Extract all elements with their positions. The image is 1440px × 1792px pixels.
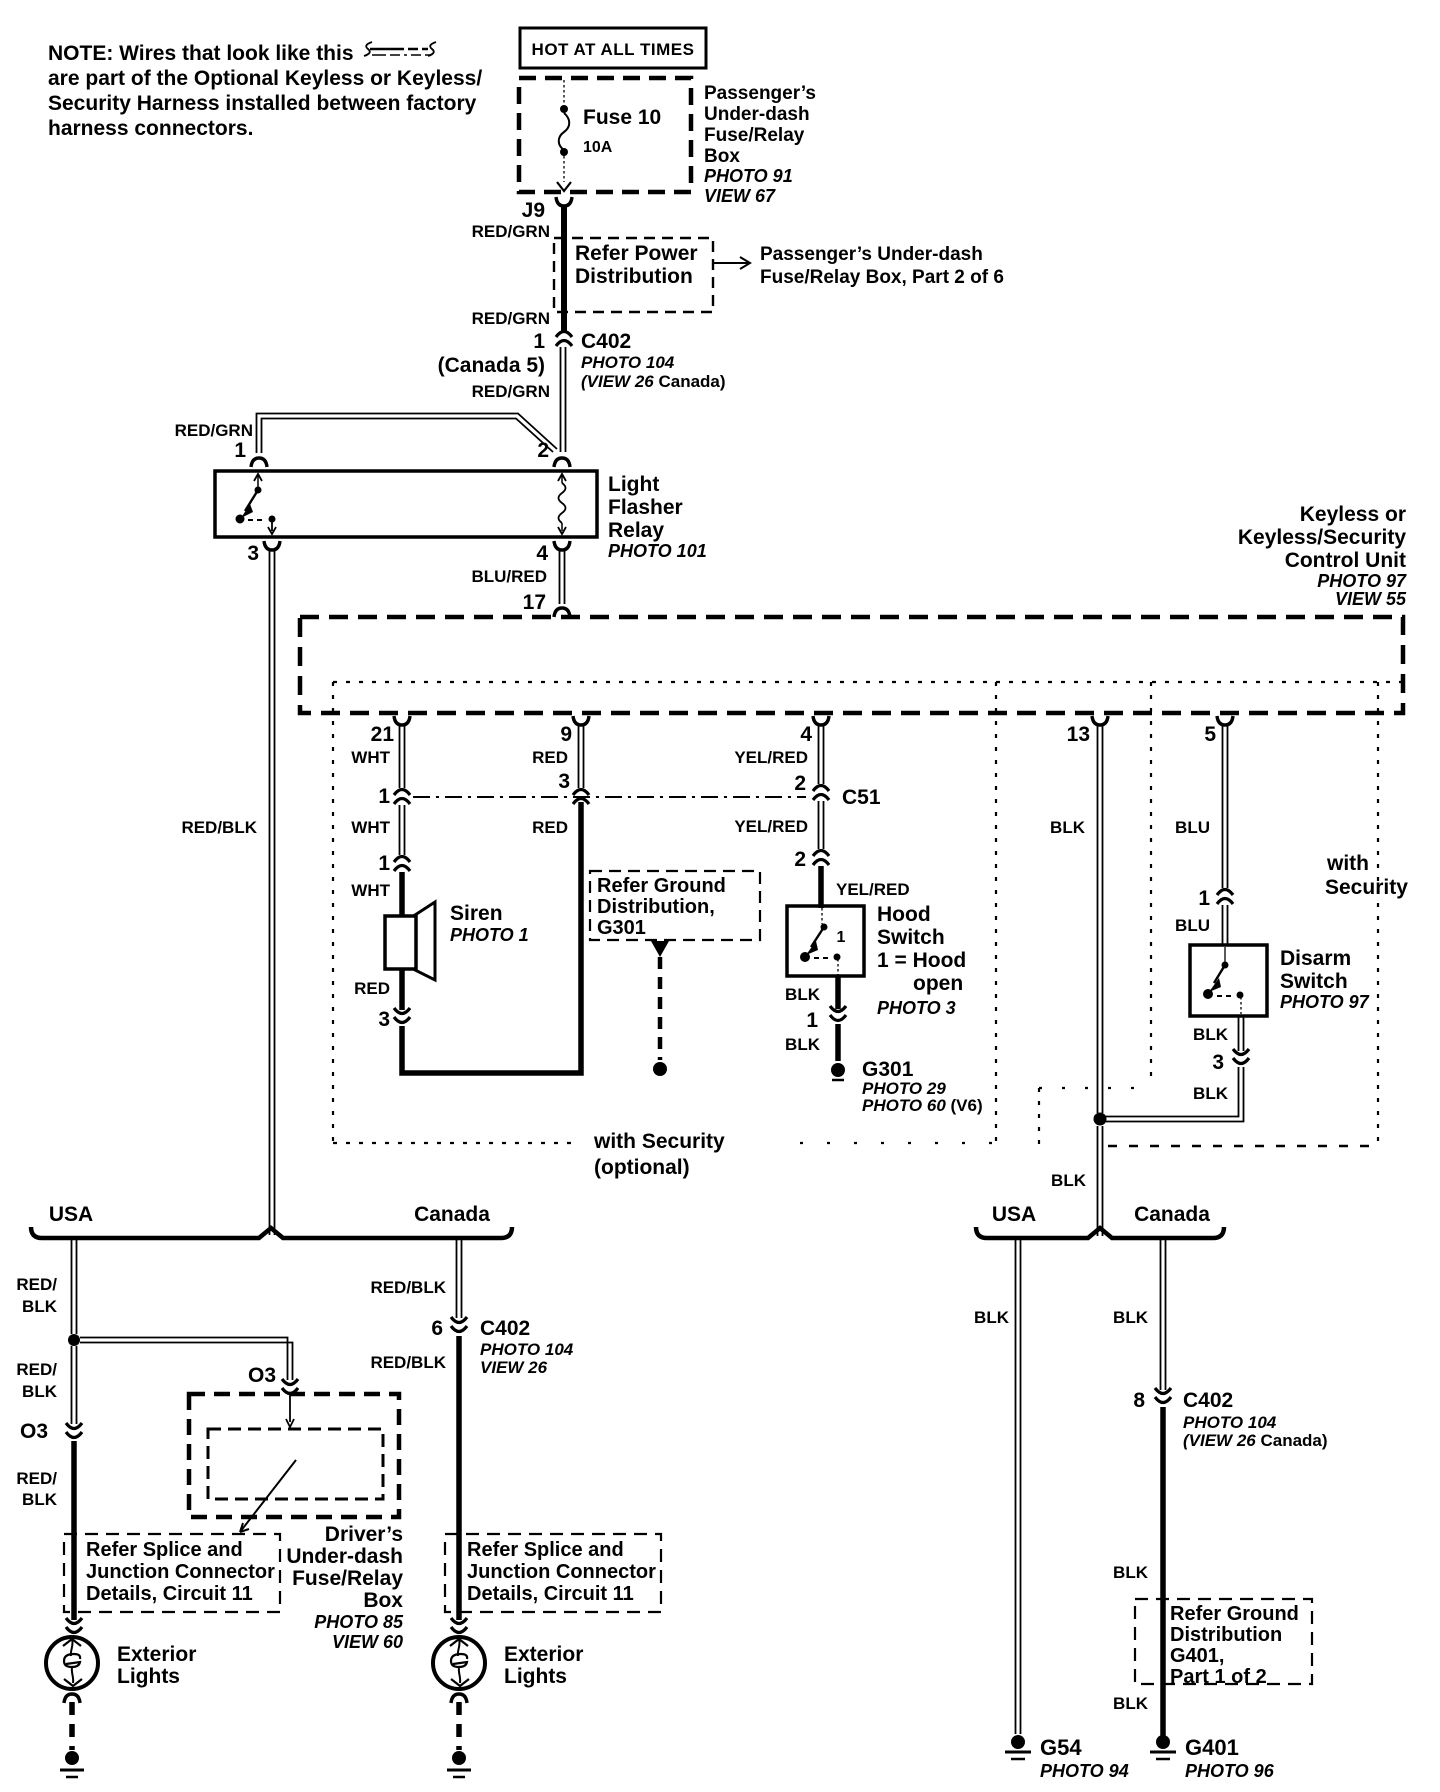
svg-text:WHT: WHT bbox=[351, 818, 390, 837]
svg-text:Junction Connector: Junction Connector bbox=[86, 1561, 275, 1583]
svg-text:Refer Splice and: Refer Splice and bbox=[86, 1539, 243, 1561]
svg-text:4: 4 bbox=[536, 542, 548, 565]
hood switch name label bbox=[877, 903, 966, 995]
svg-text:C402: C402 bbox=[1183, 1389, 1233, 1412]
svg-text:(optional): (optional) bbox=[594, 1156, 690, 1179]
connector C402 pin 1 (Canada 5) bbox=[556, 332, 572, 347]
svg-text:Box: Box bbox=[363, 1589, 403, 1612]
wire RED/GRN relay pin 1 branch (double line) bbox=[257, 414, 558, 454]
svg-text:with: with bbox=[1326, 852, 1369, 875]
svg-text:Junction Connector: Junction Connector bbox=[467, 1561, 656, 1583]
svg-text:Box: Box bbox=[704, 146, 740, 167]
svg-text:RED/GRN: RED/GRN bbox=[175, 421, 253, 440]
svg-text:G401,: G401, bbox=[1170, 1645, 1224, 1667]
svg-text:2: 2 bbox=[794, 772, 806, 795]
svg-text:RED: RED bbox=[532, 748, 568, 767]
wire BLK Canada branch (double line) bbox=[1161, 1240, 1166, 1390]
svg-text:Keyless/Security: Keyless/Security bbox=[1238, 526, 1406, 549]
svg-text:Security Harness installed bet: Security Harness installed between facto… bbox=[48, 92, 477, 115]
svg-text:(VIEW 26 Canada): (VIEW 26 Canada) bbox=[1183, 1431, 1328, 1450]
wire YEL/RED pin4 to C51 (double line) bbox=[819, 726, 824, 784]
svg-text:5: 5 bbox=[1204, 723, 1216, 746]
driver's under-dash fuse/relay box (dashed) bbox=[189, 1394, 399, 1517]
svg-text:Hood: Hood bbox=[877, 903, 931, 926]
svg-text:BLK: BLK bbox=[22, 1490, 58, 1509]
svg-text:21: 21 bbox=[371, 723, 395, 746]
wire splice to O3 driver's box (double L) bbox=[80, 1338, 293, 1381]
svg-text:4: 4 bbox=[800, 723, 812, 746]
svg-text:6: 6 bbox=[431, 1317, 443, 1340]
svg-text:BLU/RED: BLU/RED bbox=[471, 567, 547, 586]
svg-text:BLU: BLU bbox=[1175, 916, 1210, 935]
svg-text:YEL/RED: YEL/RED bbox=[734, 748, 808, 767]
svg-text:BLK: BLK bbox=[785, 1035, 821, 1054]
svg-text:1: 1 bbox=[837, 929, 846, 946]
svg-text:Refer Ground: Refer Ground bbox=[597, 875, 726, 897]
wire RED/GRN J9 to C402 (thick) bbox=[561, 206, 567, 331]
USA/Canada split bracket (left) bbox=[31, 1227, 512, 1238]
svg-text:PHOTO 104: PHOTO 104 bbox=[581, 353, 675, 372]
svg-text:C402: C402 bbox=[480, 1317, 530, 1340]
svg-text:RED/BLK: RED/BLK bbox=[370, 1353, 446, 1372]
svg-text:Distribution: Distribution bbox=[575, 265, 693, 288]
exterior lights USA (lamp) bbox=[46, 1637, 98, 1689]
wire RED siren return (thick U shape) bbox=[402, 802, 581, 1073]
wire WHT to siren (thick) bbox=[399, 872, 405, 918]
hood switch contacts bbox=[801, 908, 841, 975]
wire YEL/RED (double line) bbox=[819, 801, 824, 849]
wire RED/BLK relay pin3 down to USA/Canada bracket (double line) bbox=[270, 551, 275, 1235]
light flasher relay box bbox=[215, 471, 597, 537]
svg-text:Switch: Switch bbox=[877, 926, 945, 949]
svg-text:1: 1 bbox=[1198, 887, 1210, 910]
svg-text:WHT: WHT bbox=[351, 881, 390, 900]
svg-text:2: 2 bbox=[537, 439, 549, 462]
svg-text:Passenger’s Under-dash: Passenger’s Under-dash bbox=[760, 244, 983, 265]
ground G401 bbox=[1156, 1735, 1170, 1749]
ground (Canada lights) bbox=[452, 1751, 466, 1765]
svg-text:RED/GRN: RED/GRN bbox=[472, 382, 550, 401]
svg-text:are part of the Optional Keyle: are part of the Optional Keyless or Keyl… bbox=[48, 67, 482, 90]
svg-text:G301: G301 bbox=[597, 917, 646, 939]
svg-text:BLK: BLK bbox=[1113, 1308, 1149, 1327]
junction node (USA splice) bbox=[68, 1334, 80, 1346]
svg-text:YEL/RED: YEL/RED bbox=[734, 817, 808, 836]
wire BLK disarm to junction (double L) bbox=[1105, 1067, 1244, 1122]
svg-text:Canada: Canada bbox=[1134, 1203, 1210, 1226]
wire BLK hood switch to G301 (thick) bbox=[835, 976, 841, 1009]
wire WHT (double line) bbox=[400, 805, 405, 855]
svg-text:BLK: BLK bbox=[974, 1308, 1010, 1327]
svg-text:USA: USA bbox=[49, 1203, 93, 1226]
svg-text:13: 13 bbox=[1067, 723, 1090, 746]
svg-text:RED: RED bbox=[354, 979, 390, 998]
svg-text:C402: C402 bbox=[581, 330, 631, 353]
svg-text:PHOTO 104: PHOTO 104 bbox=[1183, 1413, 1277, 1432]
svg-text:Under-dash: Under-dash bbox=[704, 104, 810, 125]
connector J9 bbox=[556, 197, 572, 206]
wire RED siren to connector 3 (thick) bbox=[399, 969, 405, 1010]
svg-text:Driver’s: Driver’s bbox=[325, 1523, 403, 1546]
svg-text:BLK: BLK bbox=[1051, 1171, 1087, 1190]
svg-text:harness connectors.: harness connectors. bbox=[48, 117, 253, 140]
svg-text:Keyless or: Keyless or bbox=[1300, 503, 1406, 526]
svg-text:Distribution,: Distribution, bbox=[597, 896, 715, 918]
svg-text:1: 1 bbox=[533, 330, 545, 353]
svg-text:1: 1 bbox=[378, 785, 390, 808]
dashed wire to ground (USA lights) bbox=[69, 1702, 75, 1750]
ground (USA lights) bbox=[65, 1751, 79, 1765]
relay switch contacts bbox=[236, 474, 276, 534]
ground node G301 (distribution) bbox=[653, 1062, 667, 1076]
exterior lights Canada (lamp) bbox=[433, 1637, 485, 1689]
connector C51 boundary line bbox=[413, 796, 806, 798]
svg-text:3: 3 bbox=[1212, 1051, 1224, 1074]
keyless control unit name label bbox=[1238, 503, 1406, 572]
wire WHT pin21 to siren (double line) bbox=[400, 726, 405, 788]
svg-text:10A: 10A bbox=[583, 139, 613, 156]
svg-text:C51: C51 bbox=[842, 786, 881, 809]
svg-text:Control Unit: Control Unit bbox=[1285, 549, 1406, 572]
svg-text:HOT AT ALL TIMES: HOT AT ALL TIMES bbox=[532, 40, 695, 59]
svg-text:(VIEW 26 Canada): (VIEW 26 Canada) bbox=[581, 372, 726, 391]
svg-text:BLK: BLK bbox=[1113, 1563, 1149, 1582]
wire BLK disarm switch (double line) bbox=[1239, 1016, 1244, 1051]
svg-text:Canada: Canada bbox=[414, 1203, 490, 1226]
svg-text:PHOTO 104: PHOTO 104 bbox=[480, 1340, 574, 1359]
svg-text:3: 3 bbox=[558, 770, 570, 793]
svg-text:G401: G401 bbox=[1185, 1735, 1239, 1760]
svg-text:G54: G54 bbox=[1040, 1735, 1082, 1760]
wire RED/BLK USA branch (double line) bbox=[72, 1240, 77, 1334]
svg-text:Lights: Lights bbox=[117, 1665, 180, 1688]
svg-text:Switch: Switch bbox=[1280, 970, 1348, 993]
svg-text:Under-dash: Under-dash bbox=[286, 1545, 403, 1568]
svg-text:PHOTO 97: PHOTO 97 bbox=[1317, 571, 1407, 591]
svg-text:9: 9 bbox=[560, 723, 572, 746]
optional security harness dotted boundary (horizontal inside control unit) bbox=[333, 681, 1401, 683]
svg-text:1: 1 bbox=[806, 1009, 818, 1032]
wire BLK pin13 down to junction (double line) bbox=[1098, 726, 1103, 1113]
with security dotted box (right) bbox=[1150, 682, 1152, 1084]
HOT AT ALL TIMES label box bbox=[520, 28, 706, 68]
light flasher relay name label bbox=[608, 473, 683, 542]
svg-text:Siren: Siren bbox=[450, 902, 503, 925]
svg-text:VIEW 26: VIEW 26 bbox=[480, 1358, 548, 1377]
svg-text:PHOTO 94: PHOTO 94 bbox=[1040, 1761, 1129, 1781]
svg-text:RED/GRN: RED/GRN bbox=[472, 309, 550, 328]
arrow inside driver's box bbox=[240, 1460, 296, 1532]
svg-text:PHOTO 101: PHOTO 101 bbox=[608, 541, 707, 561]
connector above Canada exterior lights bbox=[451, 1618, 467, 1633]
svg-text:Refer Splice and: Refer Splice and bbox=[467, 1539, 624, 1561]
wire BLK USA to G54 (double line) bbox=[1016, 1240, 1021, 1734]
refer splice box (Canada) bbox=[445, 1534, 661, 1612]
arrow to passenger's fuse/relay box part 2 of 6 bbox=[713, 257, 750, 269]
refer ground distribution G401 box bbox=[1135, 1599, 1312, 1684]
svg-text:Fuse/Relay: Fuse/Relay bbox=[292, 1567, 403, 1590]
svg-text:NOTE: Wires that look like thi: NOTE: Wires that look like this bbox=[48, 42, 354, 65]
dashed wire to ground (Canada lights) bbox=[456, 1702, 462, 1750]
svg-text:J9: J9 bbox=[522, 199, 545, 222]
svg-text:VIEW 67: VIEW 67 bbox=[704, 186, 776, 206]
svg-text:Lights: Lights bbox=[504, 1665, 567, 1688]
disarm switch box bbox=[1190, 945, 1267, 1016]
USA/Canada split bracket (right) bbox=[976, 1227, 1224, 1238]
wire BLK junction to bracket (double line) bbox=[1098, 1126, 1103, 1236]
svg-text:Disarm: Disarm bbox=[1280, 947, 1351, 970]
connector below lamp USA bbox=[64, 1694, 80, 1703]
svg-text:PHOTO 85: PHOTO 85 bbox=[314, 1612, 404, 1632]
svg-text:G301: G301 bbox=[862, 1058, 914, 1081]
svg-text:open: open bbox=[913, 972, 963, 995]
svg-text:3: 3 bbox=[247, 542, 259, 565]
svg-text:USA: USA bbox=[992, 1203, 1036, 1226]
svg-text:BLK: BLK bbox=[1193, 1084, 1229, 1103]
svg-text:RED/: RED/ bbox=[16, 1275, 57, 1294]
svg-text:BLK: BLK bbox=[785, 985, 821, 1004]
junction node BLK bbox=[1094, 1113, 1107, 1126]
svg-text:Passenger’s: Passenger’s bbox=[704, 83, 816, 104]
svg-text:1: 1 bbox=[234, 439, 246, 462]
svg-text:Fuse 10: Fuse 10 bbox=[583, 106, 661, 129]
svg-text:1: 1 bbox=[378, 852, 390, 875]
refer splice box (USA) bbox=[64, 1534, 280, 1612]
svg-text:8: 8 bbox=[1133, 1389, 1145, 1412]
connector below lamp Canada bbox=[451, 1694, 467, 1703]
svg-text:Security: Security bbox=[1325, 876, 1408, 899]
svg-text:3: 3 bbox=[378, 1008, 390, 1031]
svg-text:Refer Ground: Refer Ground bbox=[1170, 1603, 1299, 1625]
svg-text:RED/: RED/ bbox=[16, 1469, 57, 1488]
svg-text:Light: Light bbox=[608, 473, 659, 496]
wire RED pin9 (double line) bbox=[579, 726, 584, 788]
svg-text:PHOTO 1: PHOTO 1 bbox=[450, 925, 529, 945]
svg-text:RED/BLK: RED/BLK bbox=[370, 1278, 446, 1297]
svg-text:WHT: WHT bbox=[351, 748, 390, 767]
svg-text:Part 1 of 2: Part 1 of 2 bbox=[1170, 1666, 1267, 1688]
connector O3 (driver's box) bbox=[282, 1379, 298, 1394]
wire RED/BLK to exterior lights USA (thick) bbox=[71, 1441, 77, 1620]
svg-text:VIEW 55: VIEW 55 bbox=[1335, 589, 1407, 609]
svg-text:Exterior: Exterior bbox=[117, 1643, 196, 1666]
svg-text:BLK: BLK bbox=[1193, 1025, 1229, 1044]
svg-text:RED: RED bbox=[532, 818, 568, 837]
svg-text:BLK: BLK bbox=[22, 1297, 58, 1316]
wire RED/BLK below splice (double line) bbox=[72, 1346, 77, 1424]
passenger's under-dash fuse/relay box (dashed) bbox=[519, 78, 691, 192]
svg-text:Relay: Relay bbox=[608, 519, 664, 542]
svg-text:2: 2 bbox=[794, 848, 806, 871]
svg-text:VIEW 60: VIEW 60 bbox=[332, 1632, 403, 1652]
svg-text:YEL/RED: YEL/RED bbox=[836, 880, 910, 899]
svg-text:PHOTO 91: PHOTO 91 bbox=[704, 166, 793, 186]
svg-text:PHOTO 97: PHOTO 97 bbox=[1280, 992, 1370, 1012]
svg-text:Details, Circuit 11: Details, Circuit 11 bbox=[86, 1583, 253, 1605]
svg-text:1 = Hood: 1 = Hood bbox=[877, 949, 966, 972]
relay coil bbox=[558, 474, 566, 534]
ground G54 bbox=[1011, 1735, 1025, 1749]
driver's box name label bbox=[286, 1523, 403, 1612]
svg-text:BLK: BLK bbox=[1050, 818, 1086, 837]
svg-text:PHOTO 60 (V6): PHOTO 60 (V6) bbox=[862, 1096, 983, 1115]
wire BLK to G401 (thick) bbox=[1160, 1407, 1166, 1736]
svg-text:RED/: RED/ bbox=[16, 1360, 57, 1379]
ground node G301 bbox=[831, 1063, 845, 1077]
optional harness squiggle sample symbol bbox=[364, 42, 436, 56]
refer power distribution box bbox=[554, 238, 713, 312]
svg-text:O3: O3 bbox=[248, 1364, 276, 1387]
svg-text:Fuse/Relay: Fuse/Relay bbox=[704, 125, 805, 146]
keyless/security control unit box (dashed) bbox=[300, 617, 1403, 713]
svg-text:Refer Power: Refer Power bbox=[575, 242, 698, 265]
hood switch box bbox=[787, 906, 864, 976]
svg-text:Flasher: Flasher bbox=[608, 496, 683, 519]
svg-text:PHOTO 3: PHOTO 3 bbox=[877, 998, 956, 1018]
svg-text:RED/BLK: RED/BLK bbox=[181, 818, 257, 837]
ground distribution dashed drop wire bbox=[651, 941, 669, 957]
svg-text:RED/GRN: RED/GRN bbox=[472, 222, 550, 241]
svg-text:Exterior: Exterior bbox=[504, 1643, 583, 1666]
svg-text:17: 17 bbox=[523, 591, 546, 614]
wire YEL/RED to hood switch (thick) bbox=[818, 866, 824, 908]
passenger's under-dash fuse/relay box name label bbox=[704, 83, 816, 167]
svg-text:BLU: BLU bbox=[1175, 818, 1210, 837]
connector above USA exterior lights bbox=[66, 1618, 82, 1633]
svg-text:BLK: BLK bbox=[1113, 1694, 1149, 1713]
svg-text:PHOTO 96: PHOTO 96 bbox=[1185, 1761, 1275, 1781]
siren bbox=[385, 902, 435, 980]
wire BLU/RED relay pin4 to control unit pin 17 (double line) bbox=[560, 551, 565, 604]
note text bbox=[48, 42, 482, 140]
svg-text:(Canada 5): (Canada 5) bbox=[438, 354, 545, 377]
with-security optional dotted box (center) bbox=[332, 682, 334, 1143]
wire BLU pin5 (double line) bbox=[1223, 726, 1228, 888]
wire RED/BLK to exterior lights Canada (thick) bbox=[456, 1336, 462, 1620]
svg-text:Details, Circuit 11: Details, Circuit 11 bbox=[467, 1583, 634, 1605]
svg-text:O3: O3 bbox=[20, 1420, 48, 1443]
svg-text:BLK: BLK bbox=[22, 1382, 58, 1401]
refer ground distribution G301 box bbox=[590, 871, 760, 940]
svg-text:with Security: with Security bbox=[593, 1130, 725, 1153]
disarm switch contacts bbox=[1204, 947, 1244, 1014]
wire RED/GRN C402 to relay pin 2 (double line) bbox=[561, 347, 566, 452]
wire BLU to disarm switch (double line) bbox=[1223, 905, 1228, 945]
fuse F10 symbol bbox=[557, 80, 571, 191]
svg-text:Distribution: Distribution bbox=[1170, 1624, 1282, 1646]
svg-text:Fuse/Relay Box, Part 2 of 6: Fuse/Relay Box, Part 2 of 6 bbox=[760, 267, 1004, 288]
wire RED/BLK Canada branch (double line) bbox=[457, 1240, 462, 1318]
